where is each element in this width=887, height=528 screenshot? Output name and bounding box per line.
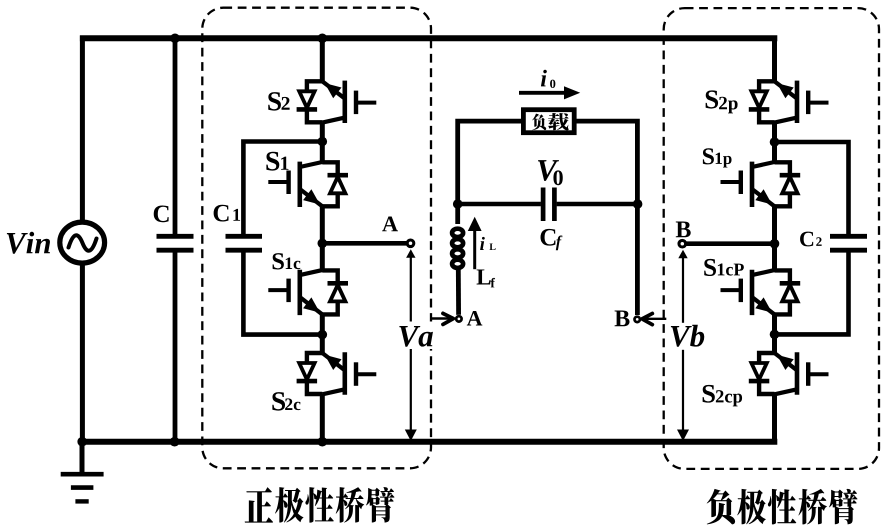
label Lf — [477, 269, 491, 284]
label S2 — [268, 92, 281, 110]
capacitor C2 — [830, 236, 867, 250]
label Vin — [7, 233, 28, 254]
wire: left branch S2c to bottom rail — [320, 394, 325, 445]
wire: C2 bottom connection — [775, 252, 849, 334]
junction: bottom-left corner — [77, 437, 87, 447]
node A terminal — [407, 240, 414, 247]
label C — [154, 205, 169, 222]
wire: C2 top connection — [775, 142, 849, 234]
label S1 — [266, 152, 279, 171]
node B terminal — [679, 240, 686, 247]
inductor Lf — [452, 229, 463, 268]
junction: Cf left node — [453, 199, 463, 209]
wire: left branch rail to S2 — [320, 36, 325, 82]
arrow into node A — [431, 317, 450, 319]
wire: top rail — [80, 35, 777, 41]
wire: left branch S1 to S1c — [320, 206, 325, 270]
wire: capacitor C bottom lead — [173, 252, 178, 443]
capacitor C — [157, 236, 194, 250]
ground — [61, 439, 104, 501]
transistor S2p (IGBT with antiparallel diode) — [749, 81, 829, 123]
label i0 — [541, 70, 547, 87]
junction: left branch top rail — [318, 34, 328, 44]
label S2cp — [703, 385, 715, 403]
label S2p — [706, 90, 718, 108]
wire: left vertical (Vin top) — [80, 36, 85, 221]
node A (inductor output) — [456, 316, 461, 321]
wire: C1 bottom connection — [243, 252, 322, 334]
dashed box: positive bridge arm (正极性桥臂) — [202, 8, 431, 469]
wire: node B stub — [682, 241, 774, 246]
label Va — [396, 322, 434, 350]
wire: C1 top connection — [243, 142, 322, 235]
arrow i0 — [519, 91, 566, 95]
wire: Cf left lead — [458, 202, 541, 207]
wire: Cf right lead — [557, 202, 638, 207]
junction: C top rail — [170, 34, 180, 44]
label A (upper) — [382, 216, 398, 231]
wire: capacitor C top lead — [173, 36, 178, 234]
junction: S1cP-S2cp node (C2 bottom) — [770, 330, 780, 340]
wire: node A stub — [322, 241, 410, 246]
wire: Lf bottom lead — [456, 268, 461, 315]
label 负极性桥臂 (negative bridge arm) — [707, 489, 858, 525]
junction: S1p-S1cP node — [770, 239, 780, 249]
label C1 — [214, 205, 229, 222]
source Vin (AC) — [60, 222, 105, 263]
wire: right branch S2cp to bottom rail — [772, 394, 777, 445]
label iL — [480, 237, 485, 250]
arrow into node B — [646, 318, 666, 320]
label S1c — [273, 253, 284, 269]
wire: load right lead — [576, 121, 637, 315]
label B (lower) — [615, 310, 630, 326]
label S2c — [272, 392, 285, 410]
label C2 — [800, 232, 813, 247]
transistor S1cP (IGBT with antiparallel diode) — [721, 270, 801, 315]
wire: left branch S1c to S2c — [320, 314, 325, 353]
wire: left branch S2 to S1 — [320, 122, 325, 162]
junction: left branch bottom rail — [318, 437, 328, 447]
wire: right branch S1cP to S2cp — [772, 314, 777, 353]
transistor S1 (IGBT with antiparallel diode) — [268, 162, 348, 207]
junction: S2-S1 node (C1 top) — [318, 137, 328, 147]
arrow Vb (double-headed) — [682, 252, 684, 434]
arrow Va (double-headed) — [410, 252, 412, 434]
transistor S2c (IGBT with antiparallel diode) — [297, 352, 377, 394]
wire: bottom rail — [80, 439, 777, 445]
junction: C bottom rail — [170, 437, 180, 447]
label Vb — [668, 323, 704, 350]
junction: S2p-S1p node (C2 top) — [770, 137, 780, 147]
label S1cP — [704, 259, 716, 276]
label S1p — [703, 148, 714, 164]
transistor S1c (IGBT with antiparallel diode) — [268, 270, 348, 315]
junction: S1-S1c node — [318, 239, 328, 249]
label Cf — [541, 229, 556, 246]
wire: right branch S1p to S1cP — [772, 206, 777, 270]
label B (upper) — [676, 221, 691, 237]
label A (lower) — [467, 311, 483, 326]
load box (负载) — [523, 110, 574, 133]
capacitor Cf — [543, 188, 554, 222]
label V0 — [538, 160, 559, 181]
transistor S1p (IGBT with antiparallel diode) — [721, 162, 801, 207]
node B (capacitor output) — [635, 317, 640, 322]
arrow iL — [473, 228, 476, 269]
wire: right branch S2p to S1p — [772, 122, 777, 162]
junction: S1c-S2c node (C1 bottom) — [318, 330, 328, 340]
junction: Cf right node — [633, 199, 643, 209]
dashed box: negative bridge arm (负极性桥臂) — [664, 8, 879, 469]
transistor S2cp (IGBT with antiparallel diode) — [749, 352, 829, 394]
capacitor C1 — [226, 236, 263, 250]
wire: left vertical (Vin bottom) — [80, 265, 85, 445]
label 正极性桥臂 (positive bridge arm) — [245, 487, 395, 523]
wire: load left lead — [458, 121, 523, 224]
transistor S2 (IGBT with antiparallel diode) — [297, 81, 377, 123]
wire: right branch rail to S2p — [772, 36, 777, 82]
